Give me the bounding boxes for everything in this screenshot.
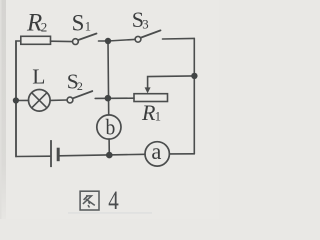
wire: ammeter to bottom-right corner (169, 153, 194, 155)
wire: rheostat wiper feed (148, 76, 195, 88)
svg-text:2: 2 (41, 19, 48, 34)
wire: lamp to S2 (50, 99, 67, 101)
rheostat R1 (134, 94, 168, 102)
svg-text:b: b (106, 114, 116, 139)
ammeter a (145, 142, 169, 166)
svg-text:L: L (32, 64, 45, 88)
wire: S3 fixed contact to top-right corner (163, 37, 195, 40)
svg-text:1: 1 (85, 20, 91, 34)
switch S3 (135, 36, 141, 42)
wire: S1 fixed contact to junction (99, 40, 109, 42)
wire: mid vertical lower (b meter to bottom junction) (108, 139, 110, 155)
node: wiper junction on right vertical (191, 73, 197, 79)
voltmeter b (97, 115, 121, 139)
switch S2 (67, 97, 73, 103)
svg-text:S: S (72, 11, 85, 36)
node: S1/S3/mid-branch junction (105, 38, 111, 44)
wire: battery to ammeter (59, 154, 145, 156)
node: lamp branch on left vertical (13, 97, 19, 103)
svg-text:a: a (151, 139, 162, 165)
wire: junction to S3 (108, 39, 135, 41)
caption: character 图 drawn as strokes (80, 191, 99, 210)
battery cell (51, 140, 58, 167)
wire: right vertical (193, 38, 195, 153)
wire: R2 to S1 (51, 40, 73, 42)
node: S2/R1/mid vertical junction (105, 95, 112, 102)
paper background (0, 0, 219, 219)
svg-text:3: 3 (142, 18, 148, 32)
svg-text:4: 4 (108, 185, 119, 215)
rheostat wiper arrowhead (145, 87, 151, 93)
lamp L (29, 90, 51, 112)
lamp branch wire from left vertical (16, 99, 29, 101)
svg-text:1: 1 (155, 110, 161, 124)
wire: mid vertical upper (junction to b meter) (107, 41, 110, 115)
faint scan smudge under caption (68, 212, 152, 214)
svg-text:2: 2 (77, 79, 83, 93)
resistor R2 (21, 36, 51, 44)
switch S1 (73, 39, 79, 45)
wire: top-left corner + left vertical (16, 41, 21, 157)
wire: bottom left (corner to battery) (16, 41, 50, 157)
wire: S2 to R1 left terminal (through mid junction) (95, 97, 134, 99)
node: bottom junction (106, 152, 113, 159)
